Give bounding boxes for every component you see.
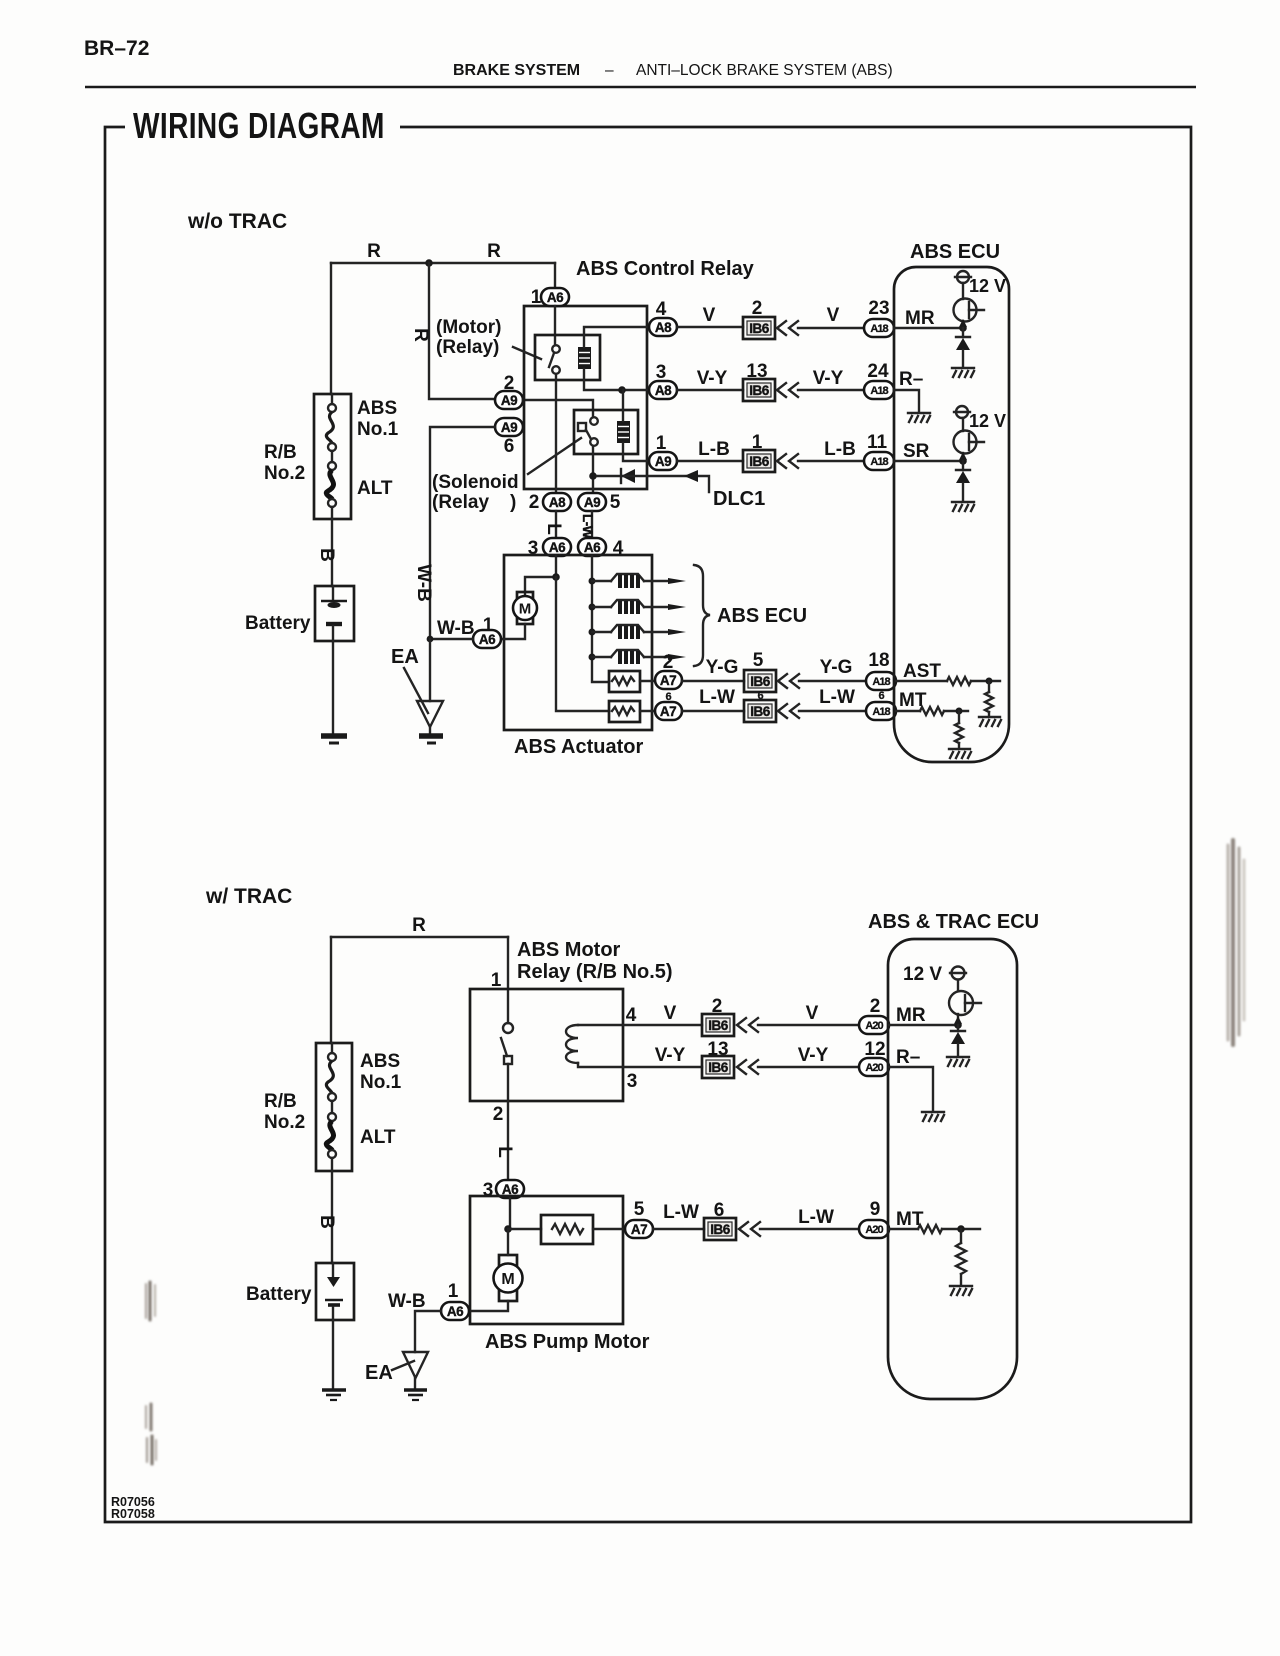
node: MT junction xyxy=(956,708,963,715)
svg-text:EA: EA xyxy=(365,1362,393,1384)
junction block connector IB6 (MT row) xyxy=(744,700,776,722)
svg-text:ABS Control Relay: ABS Control Relay xyxy=(576,258,755,280)
chevrons (AST row) xyxy=(778,674,799,688)
transistor (SR driver) xyxy=(954,431,985,454)
wire: A20 pin9 into ECU xyxy=(889,1228,918,1230)
svg-text:(Relay): (Relay) xyxy=(436,337,499,358)
solenoid relay switch xyxy=(578,417,598,446)
emitter arrow xyxy=(954,1016,962,1024)
node: W-B junction xyxy=(427,636,434,643)
svg-text:9: 9 xyxy=(870,1199,881,1220)
svg-text:L: L xyxy=(494,1146,515,1158)
svg-text:DLC1: DLC1 xyxy=(713,488,765,510)
svg-text:5: 5 xyxy=(634,1199,645,1220)
wire: A9 pin6 to W-B ground line xyxy=(430,427,495,639)
ground (MR diode) xyxy=(947,1057,969,1066)
resistor (AST) xyxy=(947,677,971,685)
wire to junction xyxy=(942,1228,980,1230)
diode (MR clamp) xyxy=(956,328,970,366)
wire L-W to IB6 xyxy=(653,1228,704,1230)
svg-text:W-B: W-B xyxy=(388,1291,426,1312)
svg-text:A18: A18 xyxy=(870,323,888,335)
svg-text:IB6: IB6 xyxy=(749,383,770,398)
svg-text:L-B: L-B xyxy=(824,439,856,460)
ground (R- pin) xyxy=(908,413,930,422)
chevrons (MR row) xyxy=(777,321,798,335)
battery (w/o TRAC) xyxy=(315,586,354,641)
relay switch xyxy=(501,1023,513,1064)
wire: rail down into relay, pin 1 xyxy=(507,937,509,1023)
svg-text:12 V: 12 V xyxy=(969,276,1006,296)
wire: A9 down to A6 xyxy=(591,511,593,538)
connector A20 (pin 9) xyxy=(859,1220,889,1238)
connector A18 (pin 24) xyxy=(864,381,894,399)
connector A8 (pin 4) xyxy=(649,318,677,336)
svg-text:w/o TRAC: w/o TRAC xyxy=(187,210,287,233)
svg-text:12 V: 12 V xyxy=(903,964,942,985)
node: AST junction xyxy=(986,678,993,685)
wire: triangle to ground xyxy=(429,727,431,734)
connector A6 (pin 3) xyxy=(496,1180,524,1198)
ABS ECU box (w/o TRAC) xyxy=(894,267,1009,762)
svg-text:V: V xyxy=(703,305,716,326)
motor relay sub-box xyxy=(535,335,600,380)
wire: solenoid coil bottom to pin 1 row xyxy=(623,443,649,461)
svg-text:R: R xyxy=(487,241,501,262)
connector A9 (pin 6) xyxy=(495,418,523,436)
svg-text:Y-G: Y-G xyxy=(706,657,739,678)
wire: R/B to battery, label B xyxy=(331,1171,333,1263)
svg-text:SR: SR xyxy=(903,441,930,462)
wire: battery to ground xyxy=(332,1320,334,1388)
svg-text:A9: A9 xyxy=(655,454,671,469)
connector A9 (relay bottom) xyxy=(578,493,606,511)
solenoid relay coil xyxy=(617,421,630,443)
svg-text:L-B: L-B xyxy=(698,439,730,460)
scan artifact: left margin marks 2 xyxy=(146,1404,156,1464)
wire: A18 pin18 into ECU xyxy=(896,680,947,682)
svg-text:W-B: W-B xyxy=(437,618,475,639)
svg-text:A6: A6 xyxy=(447,1304,464,1319)
wire: top supply rail R xyxy=(331,936,508,938)
connector A18 (pin 23) xyxy=(864,319,894,337)
wire: A8 down to A6 xyxy=(555,511,557,538)
wire: A6 to motor branch xyxy=(525,556,556,594)
svg-text:12 V: 12 V xyxy=(969,411,1006,431)
svg-text:A7: A7 xyxy=(660,673,676,688)
chevrons (MR row) xyxy=(737,1018,758,1032)
svg-text:IB6: IB6 xyxy=(750,674,771,689)
ABS & TRAC ECU box xyxy=(888,939,1017,1399)
svg-text:B: B xyxy=(316,1215,337,1229)
solenoid relay sub-box xyxy=(574,410,638,454)
wire: A20 pin2 to node xyxy=(889,1024,958,1026)
svg-text:24: 24 xyxy=(867,361,889,382)
fuse ALT xyxy=(326,462,336,519)
wire: coil top to pin 4 xyxy=(578,1024,623,1026)
relay coil (spring) xyxy=(566,1025,578,1063)
connector A7 (AST row) xyxy=(655,671,682,689)
wire: diode to DLC1 xyxy=(597,476,709,492)
pump motor M (actuator) xyxy=(513,592,537,624)
svg-text:V-Y: V-Y xyxy=(813,368,844,389)
svg-text:V-Y: V-Y xyxy=(697,368,728,389)
node: coil row 3 junction xyxy=(589,629,596,636)
svg-text:Y-G: Y-G xyxy=(820,657,853,678)
svg-text:V: V xyxy=(806,1003,819,1024)
resistor box MT row xyxy=(609,701,640,722)
wire L-B to A18 xyxy=(798,460,864,462)
svg-text:6: 6 xyxy=(504,436,515,457)
vertical resistor (AST) xyxy=(985,681,993,716)
ABS motor relay box xyxy=(470,989,623,1101)
wire: 12V to transistor xyxy=(957,980,959,991)
svg-text:A20: A20 xyxy=(865,1224,883,1236)
svg-text:MR: MR xyxy=(905,308,935,329)
svg-text:23: 23 xyxy=(868,298,889,319)
svg-text:A6: A6 xyxy=(547,290,564,305)
svg-text:IB6: IB6 xyxy=(708,1060,729,1075)
battery (w/ TRAC) xyxy=(316,1263,354,1320)
node: junction on pin3 row xyxy=(618,386,626,394)
connector A7 (pin 5) xyxy=(625,1220,653,1238)
wire V-Y to IB6 xyxy=(623,1066,702,1068)
wire: A20 pin12 to internal ground xyxy=(889,1067,933,1110)
svg-text:(Solenoid: (Solenoid xyxy=(432,472,519,493)
12V supply symbol (SR) xyxy=(954,406,970,418)
ground (EA, w/o TRAC) xyxy=(419,736,443,743)
wire L-W to A18 xyxy=(799,710,866,712)
connector A6 (pin 1, ground) xyxy=(473,630,501,648)
svg-text:5: 5 xyxy=(610,492,621,513)
ground (battery, w/o TRAC) xyxy=(321,736,347,743)
wire: A18 pin11 to node xyxy=(894,460,963,462)
svg-text:ALT: ALT xyxy=(357,478,393,499)
node: coil row 4 junction xyxy=(589,654,596,661)
junction block connector IB6 (MR row) xyxy=(743,317,775,339)
wire V-Y to A18 xyxy=(798,389,864,391)
chevrons (SR row) xyxy=(777,454,798,468)
ground (SR diode) xyxy=(952,502,974,511)
svg-text:ABS Motor: ABS Motor xyxy=(517,939,621,961)
wire Y-G to IB6 xyxy=(682,680,744,682)
body ground EA (triangle) xyxy=(403,1352,428,1378)
wire: top supply rail R xyxy=(331,262,555,264)
wire L-W to IB6 xyxy=(682,710,744,712)
chevrons (R- row) xyxy=(737,1060,758,1074)
wire: junction to resistor xyxy=(508,1228,541,1230)
vertical resistor (MT) xyxy=(955,711,963,747)
wire: coil bottom to pin 3 row xyxy=(584,369,649,390)
svg-text:–: – xyxy=(605,62,614,79)
ABS actuator box xyxy=(504,555,652,730)
svg-text:2: 2 xyxy=(529,492,540,513)
wire: coil bottom to pin 3 xyxy=(578,1063,623,1067)
ground (battery, w/ TRAC) xyxy=(322,1390,346,1400)
wire: rail down to R/B No.2 xyxy=(330,263,332,394)
svg-text:Relay (R/B No.5): Relay (R/B No.5) xyxy=(517,961,673,983)
solenoid coil 2 xyxy=(592,600,686,614)
wire: switch down to pin 2 and A6 xyxy=(507,1064,509,1180)
svg-text:IB6: IB6 xyxy=(749,454,770,469)
connector A6 (pin 1, relay top) xyxy=(541,288,569,306)
svg-text:Battery: Battery xyxy=(246,1284,312,1305)
connector A6 (actuator right) xyxy=(578,538,606,556)
node: SR junction xyxy=(959,457,967,465)
wire V to IB6 xyxy=(623,1024,702,1026)
svg-text:A18: A18 xyxy=(870,385,888,397)
svg-text:): ) xyxy=(510,492,516,513)
wire V to IB6 xyxy=(677,326,743,328)
svg-text:No.1: No.1 xyxy=(360,1072,402,1093)
svg-text:MR: MR xyxy=(896,1005,926,1026)
svg-text:V-Y: V-Y xyxy=(655,1045,686,1066)
svg-text:L-W: L-W xyxy=(798,1207,834,1228)
wire: A18 MT into ECU xyxy=(896,710,920,712)
svg-text:No.2: No.2 xyxy=(264,1112,305,1133)
diode (MR clamp) xyxy=(951,1025,965,1055)
wire Y-G to A18 xyxy=(799,680,866,682)
svg-text:M: M xyxy=(501,1271,514,1288)
connector A18 (MT row) xyxy=(866,702,896,720)
wire: A6 into box to junction xyxy=(509,1198,511,1229)
diode (to DLC1) xyxy=(621,469,635,483)
ABS pump motor box xyxy=(470,1196,623,1324)
wire: junction down to motor xyxy=(507,1229,509,1255)
wire: A18 pin23 to node xyxy=(894,327,963,329)
junction block connector IB6 (SR row) xyxy=(743,450,775,472)
resistor (MT) xyxy=(918,1225,942,1233)
connector A20 (pin 12) xyxy=(859,1058,889,1076)
svg-text:A9: A9 xyxy=(501,420,517,435)
ground (MR diode) xyxy=(952,368,974,377)
svg-text:A7: A7 xyxy=(631,1222,647,1237)
node: diode junction xyxy=(589,472,597,480)
wire: down to EA body ground xyxy=(429,639,431,701)
svg-text:ALT: ALT xyxy=(360,1127,396,1148)
ABS control relay box xyxy=(524,306,647,489)
junction block connector IB6 (R- row) xyxy=(702,1056,734,1078)
fuse ABS No.1 xyxy=(326,1043,336,1113)
chevrons (MT row) xyxy=(739,1222,760,1236)
wire L-B to IB6 xyxy=(677,460,743,462)
connector A18 (pin 11) xyxy=(864,452,894,470)
wire: R/B to battery, label B xyxy=(331,519,333,586)
svg-text:A9: A9 xyxy=(584,495,600,510)
svg-text:EA: EA xyxy=(391,646,419,668)
curly brace to ABS ECU xyxy=(694,565,710,666)
annotation pointer EA xyxy=(392,1361,414,1370)
transistor (MR driver) xyxy=(954,299,985,322)
connector A6 (pin 1, ground) xyxy=(441,1302,469,1320)
wire: A18 pin24 to internal ground xyxy=(894,390,919,411)
svg-text:2: 2 xyxy=(493,1104,504,1125)
svg-text:3: 3 xyxy=(483,1180,494,1201)
svg-text:ANTI–LOCK BRAKE SYSTEM (ABS): ANTI–LOCK BRAKE SYSTEM (ABS) xyxy=(636,62,893,79)
wire V to A20 xyxy=(758,1024,859,1026)
svg-text:L: L xyxy=(543,523,564,535)
svg-text:L-W: L-W xyxy=(580,514,595,539)
wire: A6 to EA ground xyxy=(415,1311,441,1352)
connector A6 (actuator left) xyxy=(543,538,571,556)
resistor box (pump) xyxy=(541,1215,593,1244)
junction block connector IB6 (R- row) xyxy=(743,379,775,401)
arrowhead from DLC1 xyxy=(684,470,698,482)
scan artifact: left margin marks 1 xyxy=(146,1282,155,1320)
svg-text:A20: A20 xyxy=(865,1062,883,1074)
svg-text:R: R xyxy=(367,241,381,262)
wire: resistor to A7 xyxy=(640,680,655,682)
relay block R/B No.2 box xyxy=(314,394,351,519)
node: coil row 1 junction xyxy=(589,578,596,585)
node: motor junction xyxy=(504,1225,512,1233)
svg-text:A18: A18 xyxy=(870,456,888,468)
svg-text:3: 3 xyxy=(627,1071,638,1092)
svg-text:A9: A9 xyxy=(501,393,517,408)
svg-text:A7: A7 xyxy=(660,704,676,719)
svg-text:ABS Pump Motor: ABS Pump Motor xyxy=(485,1331,650,1353)
svg-text:AST: AST xyxy=(903,661,941,682)
svg-text:V-Y: V-Y xyxy=(798,1045,829,1066)
node: MR junction xyxy=(954,1021,962,1029)
fuse ALT xyxy=(326,1113,336,1171)
svg-text:A8: A8 xyxy=(549,495,566,510)
node: rail junction xyxy=(425,259,433,267)
resistor (MT) xyxy=(920,707,944,715)
wire V-Y to A20 xyxy=(758,1066,859,1068)
svg-text:ABS ECU: ABS ECU xyxy=(717,605,807,627)
annotation pointer to motor relay xyxy=(513,347,541,359)
svg-text:1: 1 xyxy=(448,1281,459,1302)
wire: R branch down from rail xyxy=(429,263,495,399)
svg-text:IB6: IB6 xyxy=(749,321,770,336)
ground (R- pin) xyxy=(922,1112,944,1121)
wire: A6 to EA ground line xyxy=(430,638,473,640)
annotation pointer EA xyxy=(404,668,428,713)
svg-text:M: M xyxy=(519,601,532,618)
connector A8 (relay bottom) xyxy=(543,493,571,511)
svg-text:w/ TRAC: w/ TRAC xyxy=(205,885,292,908)
svg-text:6: 6 xyxy=(878,690,884,702)
vertical resistor (MT) xyxy=(956,1229,966,1284)
connector A7 (MT row) xyxy=(655,702,682,720)
connector A9 (pin 2) xyxy=(495,391,523,409)
svg-text:L-W: L-W xyxy=(819,687,855,708)
svg-text:IB6: IB6 xyxy=(750,704,771,719)
relay block R/B No.2 box xyxy=(316,1043,352,1171)
svg-text:R: R xyxy=(412,915,426,936)
wire: emitter to MR node xyxy=(957,1014,959,1025)
wire: 12V to transistor xyxy=(962,418,964,431)
connector A18 (pin 18) xyxy=(866,672,896,690)
resistor box AST row xyxy=(609,671,640,692)
node: MT junction xyxy=(957,1225,965,1233)
wire: solenoid switch down to diode node xyxy=(592,446,594,493)
wire: motor to A6 pin 1 xyxy=(469,1301,508,1311)
wire: triangle to ground xyxy=(414,1378,416,1388)
svg-text:(Motor): (Motor) xyxy=(436,317,501,338)
svg-text:ABS & TRAC ECU: ABS & TRAC ECU xyxy=(868,911,1039,933)
wire: resistor to A7 xyxy=(640,710,655,712)
connector A20 (pin 2) xyxy=(859,1016,889,1034)
svg-text:B: B xyxy=(316,548,337,562)
connector A8 (pin 3) xyxy=(649,381,677,399)
junction block connector IB6 (MR row) xyxy=(702,1014,734,1036)
12V supply symbol xyxy=(950,967,966,980)
svg-text:4: 4 xyxy=(626,1005,637,1026)
node: motor branch junction xyxy=(552,573,560,581)
fuse ABS No.1 xyxy=(326,394,336,462)
svg-text:IB6: IB6 xyxy=(708,1018,729,1033)
svg-text:A6: A6 xyxy=(549,540,566,555)
svg-text:R–: R– xyxy=(896,1047,920,1068)
wire: coil top to pin 4 xyxy=(584,327,649,347)
emitter arrow xyxy=(959,319,967,327)
transistor (MR driver) xyxy=(949,991,981,1015)
svg-text:(Relay: (Relay xyxy=(432,492,489,513)
connector A9 (pin 1) xyxy=(649,452,677,470)
svg-text:Battery: Battery xyxy=(245,613,311,634)
svg-text:2: 2 xyxy=(870,996,881,1017)
emitter arrow xyxy=(959,452,967,460)
svg-text:IB6: IB6 xyxy=(710,1222,731,1237)
svg-text:A8: A8 xyxy=(655,320,672,335)
svg-text:A18: A18 xyxy=(872,676,890,688)
svg-text:No.1: No.1 xyxy=(357,419,399,440)
wire: junction down to MT resistor row xyxy=(556,577,609,711)
diode (SR clamp) xyxy=(956,461,970,500)
ground (EA, w/ TRAC) xyxy=(404,1390,427,1400)
chevrons (MT row) xyxy=(778,704,799,718)
scan artifact: gray streaks right margin xyxy=(1228,840,1244,1045)
svg-text:No.2: No.2 xyxy=(264,463,305,484)
svg-text:W-B: W-B xyxy=(413,564,434,602)
svg-text:V: V xyxy=(827,305,840,326)
svg-text:A6: A6 xyxy=(479,632,496,647)
wire: resistor to A7 xyxy=(593,1228,625,1230)
node: MR junction xyxy=(959,324,967,332)
svg-text:L-W: L-W xyxy=(699,687,735,708)
motor relay coil xyxy=(578,347,591,369)
svg-text:BR–72: BR–72 xyxy=(84,37,149,60)
junction block connector IB6 (AST row) xyxy=(744,670,776,692)
wire: transistor emitter to MR node xyxy=(962,321,964,328)
wire: rail down to R/B No.2 xyxy=(330,937,332,1043)
wire V-Y to IB6 xyxy=(677,389,743,391)
svg-text:R07058: R07058 xyxy=(111,1507,155,1521)
wire: relay switch to pin2 A8 bottom xyxy=(555,374,557,493)
svg-text:R–: R– xyxy=(899,369,923,390)
wire V to A18 xyxy=(798,327,864,329)
wire: 12V to transistor xyxy=(962,283,964,299)
solenoid coil 4 xyxy=(592,650,686,664)
wire: A6 pin4 vertical solenoid feed xyxy=(592,556,609,682)
wire: A6 into relay to motor-relay switch xyxy=(554,306,556,345)
12V supply symbol (MR) xyxy=(955,271,971,283)
svg-text:BRAKE SYSTEM: BRAKE SYSTEM xyxy=(453,62,580,79)
ground (MT) xyxy=(950,1286,972,1295)
svg-text:ABS ECU: ABS ECU xyxy=(910,241,1000,263)
svg-text:ABS Actuator: ABS Actuator xyxy=(514,736,643,758)
svg-text:A20: A20 xyxy=(865,1020,883,1032)
annotation pointer to solenoid relay xyxy=(528,438,581,474)
solenoid coil 1 xyxy=(592,574,686,588)
wire: battery to ground xyxy=(332,641,334,734)
svg-text:18: 18 xyxy=(868,650,889,671)
svg-text:V: V xyxy=(664,1003,677,1024)
node: coil row 2 junction xyxy=(589,604,596,611)
junction block connector IB6 (MT row) xyxy=(704,1218,736,1240)
